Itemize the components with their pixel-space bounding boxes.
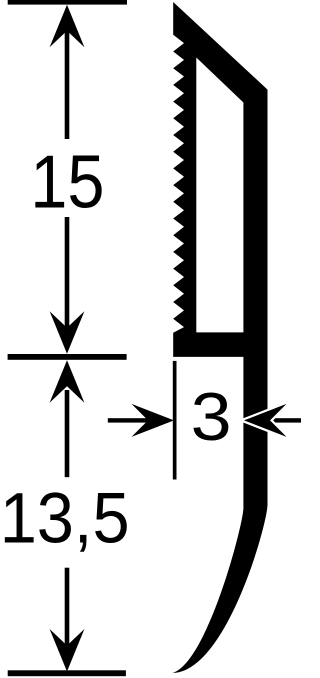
dim 15: arrow up bbox=[50, 5, 85, 48]
dim 13,5: arrow down bbox=[50, 629, 85, 672]
dim 15: upper stem bbox=[65, 28, 70, 139]
dim 3: arrow left (white casing) bbox=[244, 404, 287, 437]
svg-text:15: 15 bbox=[30, 141, 104, 224]
dim 3: right stem bbox=[266, 418, 301, 422]
dimension line bottom bbox=[8, 670, 126, 676]
dim 13,5: upper stem bbox=[65, 390, 70, 477]
svg-text:3: 3 bbox=[191, 379, 232, 455]
dim 3: arrow right bbox=[132, 404, 175, 437]
dim 15: lower stem bbox=[65, 217, 70, 329]
svg-text:13,5: 13,5 bbox=[0, 479, 130, 558]
dim 3: extension line bbox=[173, 361, 177, 480]
profile cross-section (black shape) bbox=[173, 2, 268, 673]
dim 15: arrow down bbox=[50, 311, 85, 354]
dimension line middle bbox=[8, 354, 127, 360]
dim 3: left stem bbox=[108, 418, 150, 422]
dim 13,5: lower stem bbox=[65, 568, 70, 648]
dimension line top bbox=[8, 0, 127, 5]
dim 13,5: arrow up bbox=[50, 360, 85, 403]
